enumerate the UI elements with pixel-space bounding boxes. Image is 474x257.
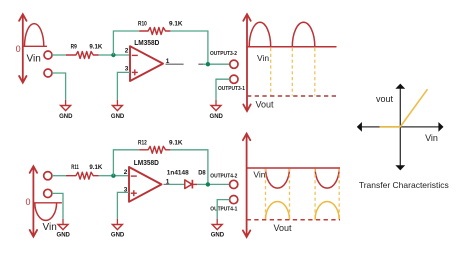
svg-text:D8: D8 <box>198 170 206 177</box>
terminal V4- <box>44 189 52 197</box>
terminal OUTPUT4-1 <box>230 196 238 204</box>
wire output pin stub <box>166 63 184 65</box>
svg-text:R12: R12 <box>138 141 147 147</box>
plot1 dashed guide 2 <box>291 48 293 96</box>
plot1 Vout dashed level <box>247 95 337 97</box>
svg-text:Vin: Vin <box>253 170 265 180</box>
terminal V3+ <box>44 51 52 59</box>
terminal V3- <box>44 69 52 77</box>
source V3 axis <box>19 14 26 82</box>
source V4 axis <box>30 166 37 236</box>
plot2 dashed guide 1 <box>265 169 267 220</box>
source V3 sine hump <box>25 24 44 47</box>
minus mark <box>132 54 138 56</box>
resistor R10 <box>139 28 170 35</box>
wire to diode <box>169 183 185 185</box>
wire V3+ to R9 <box>52 54 66 56</box>
svg-text:Transfer Characteristics: Transfer Characteristics <box>359 180 449 190</box>
wire OUTPUT3-1 to GND <box>216 79 230 100</box>
svg-text:0: 0 <box>16 44 21 54</box>
svg-text:Vin: Vin <box>425 133 438 143</box>
plot2 dashed guide 3 <box>314 169 316 220</box>
op-amp U3 LM358D <box>130 46 163 81</box>
wire V4+ to R11 <box>52 175 66 177</box>
plot1 dashed guide 3 <box>314 48 316 96</box>
svg-text:R10: R10 <box>138 22 147 28</box>
svg-text:GND: GND <box>111 113 125 120</box>
resistor R9 <box>66 52 99 59</box>
source V4 sine hump (negative) <box>35 203 57 221</box>
wire feedback right and down to output node <box>170 31 208 64</box>
svg-text:LM358D: LM358D <box>134 160 159 167</box>
wire feedback up <box>113 31 139 55</box>
ground GND (OUTPUT3-1) <box>211 106 221 111</box>
plot2 Vin baseline <box>247 167 340 169</box>
wire V4- to GND <box>52 193 63 218</box>
plot2 yellow hump 2 <box>315 202 339 220</box>
junction output node <box>206 62 210 66</box>
diode D8 1n4148 <box>185 180 192 189</box>
plot2 Vout dashed level <box>247 219 340 221</box>
wire node to op-amp pin2 <box>113 175 129 177</box>
svg-text:OUTPUT4-2: OUTPUT4-2 <box>210 173 237 179</box>
ground GND (source V4) <box>58 225 68 230</box>
plot2 yellow hump 1 <box>266 202 290 220</box>
ground GND (OUTPUT4-1) <box>212 225 222 230</box>
terminal OUTPUT3-1 <box>230 75 238 83</box>
svg-text:GND: GND <box>211 232 225 239</box>
wire node to op-amp pin2 <box>113 54 130 56</box>
wire OUTPUT4-1 to GND <box>217 200 229 219</box>
wire node to OUTPUT3-2 <box>210 63 230 65</box>
plot2 red hump 1 (negative) <box>266 168 290 188</box>
junction output node <box>206 182 210 186</box>
plot2 dashed guide 4 <box>338 169 340 220</box>
svg-text:2: 2 <box>124 169 128 176</box>
resistor R12 <box>139 146 170 153</box>
wire output pin stub <box>164 183 169 185</box>
plot1 hump 2 <box>292 22 315 47</box>
ground GND (source) <box>61 106 71 111</box>
wire feedback right and down <box>170 150 208 185</box>
svg-text:R11: R11 <box>71 165 79 171</box>
op-amp U4 LM358D <box>129 167 162 202</box>
plus mark <box>131 192 137 194</box>
resistor R11 <box>66 172 99 179</box>
svg-text:0: 0 <box>25 197 30 207</box>
svg-text:R9: R9 <box>71 45 78 51</box>
plot2 dashed guide 2 <box>289 169 291 220</box>
svg-text:GND: GND <box>59 113 73 120</box>
svg-text:OUTPUT3-2: OUTPUT3-2 <box>210 51 237 57</box>
transfer curve diagonal segment <box>400 89 427 127</box>
svg-text:Vout: Vout <box>274 223 293 233</box>
terminal OUTPUT3-2 <box>230 60 238 68</box>
junction node A <box>111 53 115 57</box>
svg-text:vout: vout <box>376 94 394 104</box>
svg-text:OUTPUT3-1: OUTPUT3-1 <box>218 86 245 92</box>
terminal OUTPUT4-2 <box>230 180 238 188</box>
wire diode to node <box>197 183 208 185</box>
svg-text:Vout: Vout <box>256 99 275 109</box>
terminal V4+ <box>44 172 52 180</box>
svg-text:1n4148: 1n4148 <box>167 170 189 177</box>
junction node B <box>111 174 115 178</box>
wire node to OUTPUT4-2 <box>210 183 230 185</box>
svg-text:9.1K: 9.1K <box>89 45 103 51</box>
svg-text:Vin: Vin <box>257 53 269 63</box>
transfer horizontal axis <box>361 126 440 128</box>
minus mark <box>131 175 137 177</box>
svg-text:Vin: Vin <box>27 54 41 65</box>
ground GND (op-amp) <box>112 106 122 111</box>
wire R11 to node <box>99 175 114 177</box>
svg-text:OUTPUT4-1: OUTPUT4-1 <box>210 207 237 213</box>
plot1 Vin baseline <box>247 46 337 48</box>
wire V3- to GND <box>52 73 66 100</box>
plot1 axis <box>243 14 250 111</box>
svg-text:9.1K: 9.1K <box>89 165 103 171</box>
plot2 red hump 2 (negative) <box>315 168 339 188</box>
transfer vertical axis <box>399 88 401 167</box>
plus mark <box>132 71 138 73</box>
transfer curve flat segment <box>380 126 401 128</box>
plot1 hump 1 <box>249 22 271 47</box>
source V4 baseline <box>33 202 62 204</box>
wire R9 to node <box>99 54 114 56</box>
svg-text:GND: GND <box>57 232 71 239</box>
wire feedback up <box>113 150 139 176</box>
plot1 dashed guide 1 <box>270 48 272 96</box>
svg-text:Vin: Vin <box>43 222 57 233</box>
plot2 axis <box>243 134 250 237</box>
svg-text:3: 3 <box>125 66 129 73</box>
wire op-amp pin3 to GND <box>117 192 129 218</box>
wire op-amp pin3 to GND <box>117 72 130 99</box>
svg-text:2: 2 <box>125 48 129 55</box>
svg-text:GND: GND <box>111 232 125 239</box>
svg-text:LM358D: LM358D <box>134 40 159 47</box>
source V3 baseline <box>23 45 47 47</box>
ground GND (op-amp U4) <box>112 225 122 230</box>
svg-text:9.1K: 9.1K <box>169 22 183 28</box>
svg-text:GND: GND <box>210 113 224 120</box>
svg-text:9.1K: 9.1K <box>169 141 183 147</box>
